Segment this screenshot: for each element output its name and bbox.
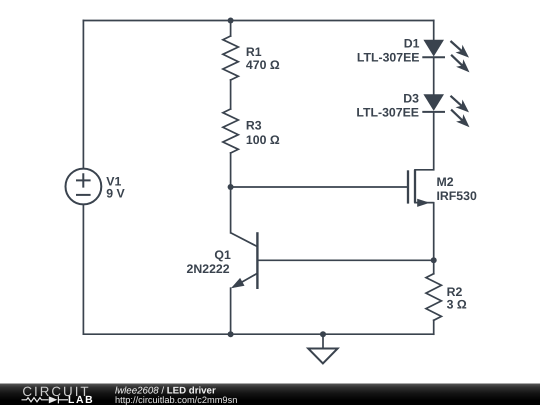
resistor R3 bbox=[223, 109, 238, 153]
svg-text:Q1: Q1 bbox=[214, 248, 231, 262]
Q1 emitter arrow bbox=[231, 278, 245, 288]
V1 minus sign bbox=[76, 194, 91, 196]
svg-text:2N2222: 2N2222 bbox=[187, 262, 230, 276]
wire R2 bottom lead bbox=[433, 320, 435, 334]
wire D1 to D3 bbox=[433, 57, 435, 94]
D3 anode triangle bbox=[423, 94, 444, 111]
wire R1 to R3 bbox=[230, 80, 232, 109]
Q1 base bar bbox=[256, 232, 258, 289]
svg-text:100 Ω: 100 Ω bbox=[246, 133, 280, 147]
wire D3 to M2 drain bbox=[415, 112, 434, 170]
wire M2 source to node S bbox=[415, 203, 434, 261]
transistor Q1 (NPN) bbox=[231, 232, 258, 289]
svg-text:http://circuitlab.com/c2mm9sn: http://circuitlab.com/c2mm9sn bbox=[115, 395, 237, 405]
svg-text:LAB: LAB bbox=[68, 395, 93, 405]
svg-text:M2: M2 bbox=[437, 175, 454, 189]
M2 source lead bbox=[415, 202, 434, 204]
wire left rail upper bbox=[82, 21, 84, 169]
CircuitLab logo resistor-diode glyph bbox=[22, 396, 69, 403]
svg-text:470 Ω: 470 Ω bbox=[246, 58, 280, 72]
wire bottom rail bbox=[83, 333, 433, 335]
V1 plus sign bbox=[76, 173, 91, 187]
wire D1 anode lead bbox=[433, 21, 435, 40]
junction node top (R1/supply) bbox=[228, 18, 234, 24]
D3 cathode bar bbox=[422, 111, 445, 113]
wire R1 top lead bbox=[230, 21, 232, 37]
wire Q1 base net bbox=[257, 259, 433, 261]
resistor R1 bbox=[223, 36, 238, 80]
wire node S to R2 bbox=[433, 260, 435, 273]
svg-text:R3: R3 bbox=[246, 119, 262, 133]
D3 light arrow 2 bbox=[451, 110, 463, 121]
wire gate net horizontal bbox=[231, 186, 408, 188]
wire top rail bbox=[83, 20, 433, 22]
V1 circle bbox=[66, 169, 102, 205]
Q1 collector lead bbox=[231, 233, 258, 247]
D1 cathode bar bbox=[422, 56, 445, 58]
transistor M2 (NMOS) bbox=[408, 170, 434, 207]
junction node ground bbox=[320, 331, 326, 337]
voltage source V1 bbox=[66, 169, 102, 205]
svg-text:3 Ω: 3 Ω bbox=[447, 297, 467, 311]
junction node source/base/R2 bbox=[431, 257, 437, 263]
svg-text:R1: R1 bbox=[246, 45, 262, 59]
wire left rail lower bbox=[82, 205, 84, 335]
M2 channel bar bbox=[414, 170, 416, 203]
resistor R2 bbox=[426, 274, 441, 321]
junction node gate bbox=[228, 184, 234, 190]
wire R3 to node gate bbox=[230, 153, 232, 187]
LED D3 bbox=[422, 94, 469, 127]
junction node emitter/bottom bbox=[228, 331, 234, 337]
M2 source arrow bbox=[417, 199, 430, 207]
ground bbox=[308, 349, 337, 364]
Q1 emitter lead bbox=[233, 273, 257, 287]
wire node gate to Q1 collector bbox=[230, 187, 232, 233]
svg-text:IRF530: IRF530 bbox=[437, 189, 477, 203]
D1 anode triangle bbox=[423, 40, 444, 57]
LED D1 bbox=[422, 40, 469, 73]
svg-text:D3: D3 bbox=[403, 92, 419, 106]
svg-text:D1: D1 bbox=[404, 36, 420, 50]
svg-text:LTL-307EE: LTL-307EE bbox=[357, 50, 420, 64]
D1 light arrow 2 bbox=[451, 55, 463, 66]
D3 light arrow 1 bbox=[451, 96, 463, 107]
M2 gate bar bbox=[407, 170, 409, 203]
svg-text:LTL-307EE: LTL-307EE bbox=[356, 106, 419, 120]
wire Q1 emitter lead bbox=[230, 288, 232, 334]
D1 light arrow 1 bbox=[451, 41, 463, 52]
wire ground stub bbox=[322, 334, 324, 348]
svg-text:9 V: 9 V bbox=[106, 186, 125, 200]
